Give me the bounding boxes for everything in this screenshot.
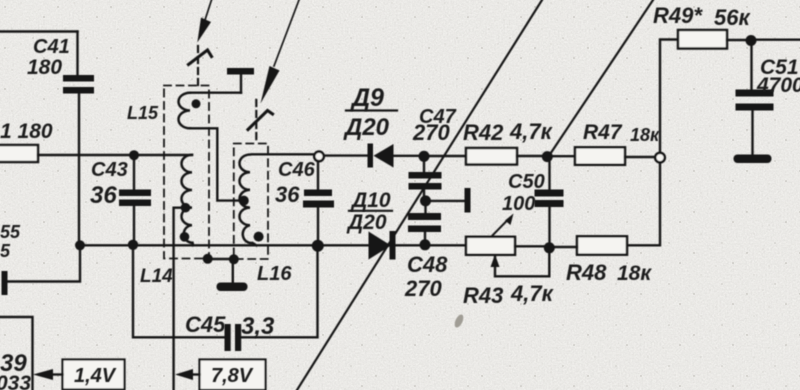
capacitor C45 xyxy=(225,324,242,351)
wire between shield nodes xyxy=(208,258,234,260)
node K terminal ring xyxy=(655,153,665,163)
svg-text:4,7к: 4,7к xyxy=(509,119,554,144)
node D xyxy=(312,240,324,252)
L16 tap dot xyxy=(239,196,249,206)
R43 wiper arrow xyxy=(492,220,509,237)
svg-text:36: 36 xyxy=(275,182,300,207)
svg-text:Д9: Д9 xyxy=(350,84,384,112)
shield ground node right xyxy=(229,254,239,264)
svg-text:C50: C50 xyxy=(508,171,545,193)
svg-text:5: 5 xyxy=(0,241,11,261)
svg-text:033: 033 xyxy=(0,372,31,390)
fraction bar D9 xyxy=(346,109,397,111)
svg-text:C48: C48 xyxy=(407,252,448,277)
trimmer core 2 xyxy=(248,111,273,130)
wire ring up to R49 xyxy=(660,40,678,153)
L16 winding dot xyxy=(254,232,264,242)
svg-text:C41: C41 xyxy=(33,36,70,58)
R43 wiper loop xyxy=(495,253,549,276)
svg-text:1 180: 1 180 xyxy=(0,120,53,143)
capacitor plate at left edge xyxy=(2,271,8,295)
wire resistor to L14 xyxy=(38,154,192,156)
node H xyxy=(542,151,553,162)
inductor L14 xyxy=(182,155,194,246)
shield ground node left xyxy=(203,254,213,264)
svg-text:C46: C46 xyxy=(278,159,316,181)
capacitor C41 xyxy=(63,75,94,94)
svg-text:180: 180 xyxy=(27,56,62,79)
voltage box 1,4V xyxy=(63,360,125,390)
switch contact bar xyxy=(465,188,471,213)
diagonal line B xyxy=(550,0,654,155)
svg-text:Д20: Д20 xyxy=(343,114,390,141)
svg-text:1,4V: 1,4V xyxy=(74,365,117,387)
shield box L16 dashed xyxy=(234,144,268,260)
inductor L16 xyxy=(252,153,314,155)
svg-text:270: 270 xyxy=(412,120,450,145)
svg-text:100: 100 xyxy=(502,193,535,215)
svg-text:R43: R43 xyxy=(463,283,503,308)
diode D9 xyxy=(368,144,374,168)
node F xyxy=(420,195,431,206)
svg-text:C45: C45 xyxy=(185,312,226,337)
svg-text:3,3: 3,3 xyxy=(241,313,275,340)
L14 tap dot xyxy=(181,203,191,213)
svg-text:Д20: Д20 xyxy=(346,211,387,234)
diagonal line A xyxy=(297,0,542,390)
wire C41 to node row xyxy=(78,94,80,246)
svg-text:55: 55 xyxy=(0,222,21,242)
svg-text:18к: 18к xyxy=(617,262,652,285)
resistor R42 xyxy=(429,155,466,157)
trimmer core 1 xyxy=(189,50,212,65)
block box bottom-left xyxy=(0,317,33,390)
fraction bar D10 xyxy=(349,210,392,212)
wire to right edge xyxy=(756,39,800,41)
svg-text:R49*: R49* xyxy=(653,3,703,28)
inductor L15 xyxy=(190,91,241,93)
shield box L15 L14 dashed xyxy=(164,86,209,259)
node B xyxy=(128,240,138,250)
node C46 terminal (ring) xyxy=(314,152,324,162)
svg-text:L14: L14 xyxy=(140,266,173,287)
wire top-left horizontal xyxy=(0,30,78,32)
svg-text:56к: 56к xyxy=(714,5,751,30)
trimmer arrow 1 xyxy=(205,0,212,20)
svg-text:4,7к: 4,7к xyxy=(510,281,555,306)
svg-text:270: 270 xyxy=(404,276,442,301)
node A xyxy=(129,150,139,160)
node G xyxy=(420,239,431,250)
capacitor C46 xyxy=(317,162,319,191)
svg-text:R47: R47 xyxy=(583,121,623,144)
wire ring down to R48 xyxy=(628,162,660,245)
resistor R43 potentiometer xyxy=(466,237,515,255)
svg-text:4700: 4700 xyxy=(756,74,800,97)
voltage box 7,8V xyxy=(200,360,266,390)
svg-text:C43: C43 xyxy=(91,159,128,181)
capacitor C48 xyxy=(424,206,426,214)
svg-text:L16: L16 xyxy=(257,263,292,285)
wire C41 drop xyxy=(76,32,78,76)
svg-text:R42: R42 xyxy=(463,120,504,145)
wire node F to switch contact xyxy=(431,200,465,202)
L14 winding dot xyxy=(180,232,190,242)
svg-text:L15: L15 xyxy=(127,103,159,123)
node M xyxy=(544,242,555,253)
capacitor C47 xyxy=(423,161,425,173)
resistor R44 (cut at left edge) xyxy=(0,145,38,162)
capacitor C43 xyxy=(133,160,135,190)
capacitor C50 xyxy=(548,162,550,190)
node C xyxy=(75,240,85,250)
ground xyxy=(232,259,234,283)
resistor R47 xyxy=(552,155,575,157)
node L xyxy=(746,35,757,46)
trimmer arrow 2 xyxy=(274,0,299,66)
resistor R48 xyxy=(577,236,627,254)
smudge artifact xyxy=(453,313,465,329)
diode D10 xyxy=(369,232,392,260)
svg-text:18к: 18к xyxy=(630,125,660,145)
wire C45 branch left xyxy=(133,250,225,337)
svg-text:7,8V: 7,8V xyxy=(211,365,254,387)
ground C51 xyxy=(734,155,772,164)
wire ring to diode D9 xyxy=(324,154,368,156)
wire 7.8V tap line xyxy=(174,208,186,390)
wire L15 bottom to L16 tap xyxy=(190,128,240,200)
wire C45 branch right xyxy=(241,251,318,337)
wire main bottom row xyxy=(80,244,466,246)
svg-text:R48: R48 xyxy=(566,260,607,285)
wire to left capacitor xyxy=(8,250,80,282)
svg-text:36: 36 xyxy=(90,182,117,209)
capacitor C51 xyxy=(750,45,752,90)
svg-text:Д10: Д10 xyxy=(350,189,391,212)
node E xyxy=(419,151,430,162)
resistor R49 xyxy=(678,30,727,49)
